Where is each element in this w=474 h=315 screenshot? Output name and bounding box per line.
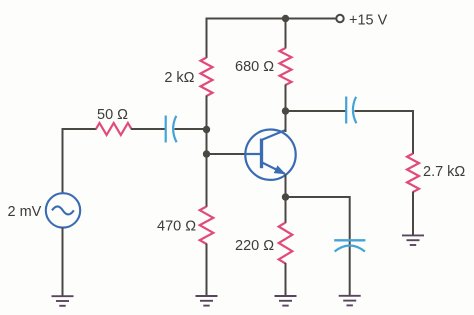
wire 680 to collector node — [285, 85, 287, 112]
resistor 220 Ω — [279, 223, 293, 264]
ground below 470 — [196, 296, 218, 306]
resistor 470 Ω — [200, 207, 214, 245]
svg-text:2.7 kΩ: 2.7 kΩ — [423, 164, 465, 180]
wire C2 to load corner — [355, 111, 414, 154]
svg-text:50 Ω: 50 Ω — [97, 107, 128, 123]
wire emitter — [285, 174, 287, 198]
svg-text:2 mV: 2 mV — [8, 204, 42, 220]
node J2 — [203, 150, 210, 157]
wire emitter node to 220 — [285, 197, 287, 223]
node J1 — [203, 126, 210, 133]
wire collector to C2 — [286, 110, 347, 112]
wire C1 to J1 — [175, 128, 207, 130]
wire 2.7k to ground — [412, 192, 414, 236]
node collector — [282, 107, 289, 114]
node emitter — [282, 193, 289, 200]
wire source to ground — [62, 228, 64, 297]
transistor Q1 — [245, 130, 295, 180]
terminal +15 V — [336, 15, 343, 22]
svg-text:+15 V: +15 V — [349, 13, 388, 29]
svg-text:680 Ω: 680 Ω — [235, 59, 274, 75]
resistor 2.7 kΩ — [407, 154, 419, 193]
resistor 50 Ω — [96, 123, 132, 135]
svg-text:220 Ω: 220 Ω — [235, 238, 274, 254]
wire collector — [285, 111, 287, 133]
svg-text:2 kΩ: 2 kΩ — [164, 70, 194, 86]
capacitor C3 bypass — [334, 240, 365, 251]
svg-text:470 Ω: 470 Ω — [157, 218, 196, 234]
ground below bypass — [339, 296, 361, 306]
wire emitter branch to bypass — [286, 197, 350, 296]
wire 470 bottom to ground — [206, 244, 208, 297]
wire rail to 680 — [285, 19, 287, 49]
wire base — [207, 153, 247, 155]
capacitor C1 input coupling — [166, 116, 177, 143]
wire left branch top — [206, 18, 208, 59]
resistor 2 kΩ — [201, 58, 213, 97]
node rail junction — [282, 15, 289, 22]
resistor 680 Ω — [280, 48, 292, 85]
wire 50 to C1 — [131, 128, 166, 130]
wire 220 to ground — [285, 263, 287, 296]
capacitor C2 output coupling — [346, 97, 356, 124]
wire 2k bottom to 470 top — [206, 96, 208, 208]
ground below source — [52, 296, 74, 306]
wire input horizontal left — [62, 128, 97, 130]
source 2 mV — [46, 193, 80, 227]
wire source vertical — [62, 128, 64, 194]
ground below 220 — [275, 296, 297, 306]
ground below 2.7k — [402, 235, 424, 245]
wire top rail — [207, 18, 337, 20]
